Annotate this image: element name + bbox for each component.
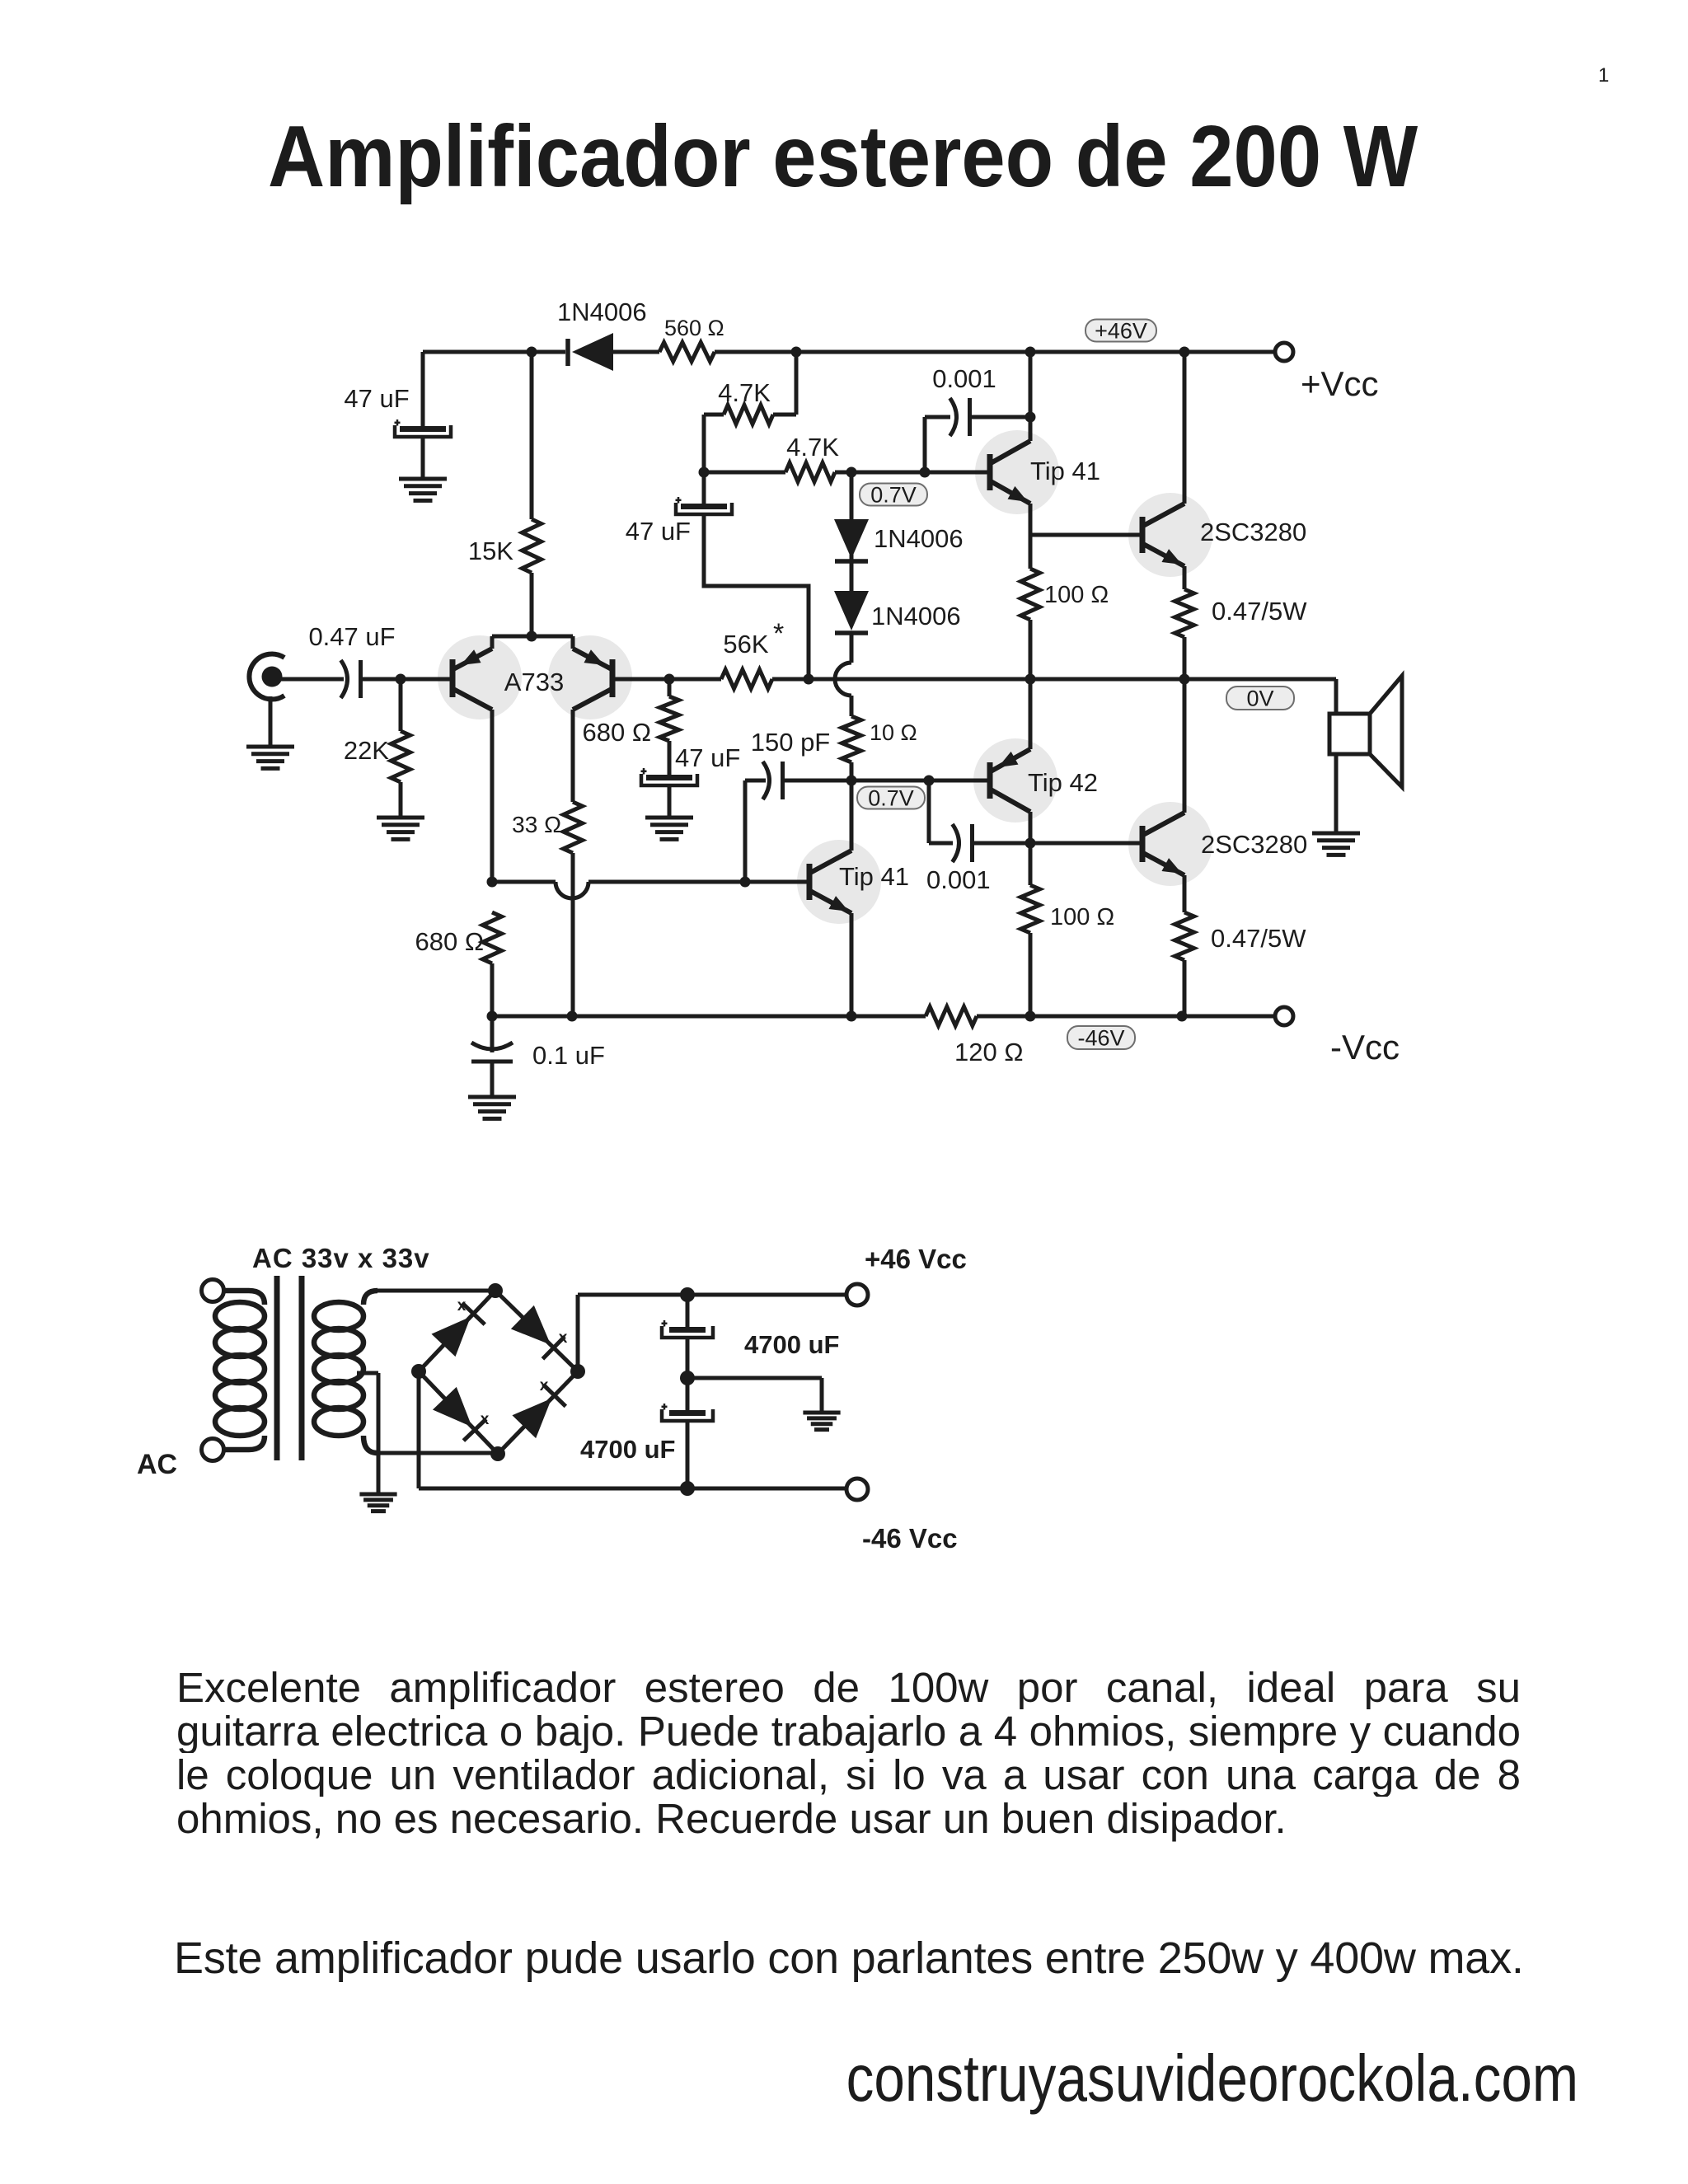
node bottom rail / 0.47 lower xyxy=(1177,1011,1188,1022)
net label 0.7V upper xyxy=(860,482,927,507)
wire 2SC3280L collector up xyxy=(1183,679,1187,813)
bridge node right xyxy=(570,1364,585,1379)
wire 0.001L left down xyxy=(927,780,931,843)
svg-text:4.7K: 4.7K xyxy=(718,378,771,407)
svg-text:680 Ω: 680 Ω xyxy=(582,718,651,747)
svg-text:4700 uF: 4700 uF xyxy=(580,1435,675,1464)
svg-text:2SC3280: 2SC3280 xyxy=(1201,830,1307,859)
svg-text:x: x xyxy=(457,1297,467,1315)
label A733 xyxy=(504,668,564,696)
node top rail / 15K xyxy=(527,347,537,358)
wire base row lower right xyxy=(588,880,809,884)
svg-text:0.001: 0.001 xyxy=(926,865,991,894)
label 4700 uF lower xyxy=(580,1435,675,1464)
website xyxy=(248,2041,1578,2116)
node bottom rail / 33 ohm xyxy=(567,1011,578,1022)
label 1N4006 of D3 xyxy=(871,602,961,630)
wire top rail down to R 4.7K first xyxy=(795,352,799,415)
node 0.7V / 0.001 branch xyxy=(924,776,935,786)
resistor 22K xyxy=(392,731,410,782)
bridge diode left-bottom xyxy=(433,1387,486,1441)
svg-text:47 uF: 47 uF xyxy=(675,743,740,772)
node base row / 150pF xyxy=(740,877,751,888)
wire bottom rail left xyxy=(492,1015,926,1019)
wire 0.47L to rail xyxy=(1183,960,1187,1016)
resistor 100 ohm lower xyxy=(1021,885,1040,933)
transistor body highlight A733 left xyxy=(438,635,522,719)
wire 0.001L left lead xyxy=(929,841,953,846)
wire hop to 10 ohm xyxy=(850,696,854,716)
wire mid node to ground xyxy=(687,1378,822,1413)
label 4700 uF upper xyxy=(744,1330,839,1359)
node diode chain top xyxy=(846,467,857,478)
label 120 ohm xyxy=(954,1038,1024,1066)
wire C7 lead xyxy=(686,1378,690,1410)
label 2SC3280 upper xyxy=(1200,518,1306,546)
2SC3280 upper base lead xyxy=(1030,533,1142,537)
2SC3280 lower collector diag xyxy=(1143,813,1184,835)
svg-text:x: x xyxy=(481,1411,490,1428)
capacitor C3 47uF xyxy=(676,497,733,514)
ground below jack xyxy=(246,747,294,768)
svg-text:0V: 0V xyxy=(1246,686,1273,710)
svg-text:150 pF: 150 pF xyxy=(751,728,831,757)
A733 right emitter diag xyxy=(573,649,612,669)
svg-text:1N4006: 1N4006 xyxy=(557,298,647,326)
bridge edge left-top xyxy=(419,1291,495,1371)
node bottom rail / 0.1uF xyxy=(487,1011,498,1022)
svg-text:+Vcc: +Vcc xyxy=(1301,364,1379,403)
svg-text:22K: 22K xyxy=(344,736,389,765)
title xyxy=(268,107,1418,207)
speaker box xyxy=(1329,714,1370,754)
resistor 0.47/5W upper xyxy=(1175,589,1194,637)
label 47 uF of C4 xyxy=(675,743,740,772)
A733 left collector diag xyxy=(453,689,492,710)
capacitor C1 47uF xyxy=(395,419,452,437)
terminal AC primary bottom xyxy=(202,1439,224,1461)
label +46 Vcc xyxy=(865,1244,967,1274)
wire secondary bottom lead xyxy=(375,1451,498,1455)
wire base row lower left xyxy=(492,880,556,884)
label 100 ohm lower xyxy=(1050,904,1114,930)
label 10 ohm xyxy=(870,720,917,745)
wire D2 to D3 xyxy=(850,539,854,591)
terminal AC primary top xyxy=(202,1280,224,1302)
wire 0.001 left down xyxy=(923,417,927,472)
bridge node left xyxy=(411,1364,426,1379)
wire 15K to A733 emitters xyxy=(530,573,534,636)
svg-text:+46V: +46V xyxy=(1095,318,1147,343)
resistor 0.47/5W lower xyxy=(1175,912,1194,960)
wire D3 down to hop xyxy=(850,633,854,663)
wire speaker to ground xyxy=(1334,754,1339,833)
capacitor C2 0.47uF xyxy=(341,660,361,698)
transistor body highlight 2SC3280 upper xyxy=(1128,493,1212,577)
wire +Vcc rail right segment xyxy=(715,350,1277,354)
svg-text:0.47 uF: 0.47 uF xyxy=(308,622,395,651)
transistor Q Tip41 upper base bar xyxy=(987,454,993,490)
svg-text:0.001: 0.001 xyxy=(932,364,996,393)
node between 4700uF caps xyxy=(680,1371,695,1385)
2SC3280 upper collector xyxy=(1143,504,1184,526)
transistor body highlight Tip42 xyxy=(973,738,1057,823)
svg-text:4.7K: 4.7K xyxy=(786,433,839,462)
page number xyxy=(1598,64,1609,87)
label AC 33v x 33v xyxy=(252,1243,430,1273)
wire bridge right to +46 rail xyxy=(578,1295,848,1371)
ground center tap xyxy=(359,1494,396,1511)
transistor body highlight Tip41 lower xyxy=(797,840,881,924)
ground below C4 xyxy=(645,818,693,839)
label Tip 41 lower xyxy=(839,862,909,891)
resistor 33 ohm xyxy=(564,802,583,853)
svg-text:A733: A733 xyxy=(504,668,564,696)
label 22K xyxy=(344,736,389,765)
paragraph 2 xyxy=(174,1937,1575,1980)
svg-text:2SC3280: 2SC3280 xyxy=(1200,518,1306,546)
wire Tip41u collector up xyxy=(1029,352,1033,441)
svg-text:0.7V: 0.7V xyxy=(868,785,914,810)
wire 56K to speaker rail xyxy=(772,677,1336,682)
wire Tip41L collector up xyxy=(850,780,854,851)
transistor body highlight 2SC3280 lower xyxy=(1128,802,1212,886)
Tip41 upper emitter xyxy=(991,481,1030,504)
wire output rail A733 to 56K xyxy=(612,677,721,682)
net label +46V xyxy=(1085,318,1156,343)
resistor 100 ohm upper xyxy=(1021,569,1040,620)
node 680 ohm branch xyxy=(664,674,675,685)
resistor 120 ohm xyxy=(926,1007,977,1026)
wire D1 to R560 xyxy=(613,350,659,354)
label 47 uF of C1 xyxy=(344,384,409,413)
node output 2SC3280 emitter xyxy=(1179,674,1190,685)
wire Tip42 emitter up xyxy=(1029,679,1033,749)
diode D1 1N4006 xyxy=(568,333,613,371)
transistor A733 right base bar xyxy=(610,659,616,697)
wire 4.7K lower left lead xyxy=(704,471,785,475)
svg-text:10 Ω: 10 Ω xyxy=(870,720,917,745)
wire Tip41u emitter down xyxy=(1029,504,1033,535)
node +46 rail / C6 xyxy=(680,1287,695,1302)
node A733 emitters xyxy=(527,631,537,642)
svg-text:33 Ω: 33 Ω xyxy=(512,812,561,837)
bridge node top xyxy=(488,1283,503,1298)
wire 680L to bottom rail xyxy=(490,963,495,1016)
wire node to 680 ohm xyxy=(668,679,672,696)
terminal -46 Vcc xyxy=(846,1479,868,1500)
svg-text:x: x xyxy=(559,1329,568,1347)
label 33 ohm xyxy=(512,812,561,837)
capacitor 0.001 upper xyxy=(950,398,970,436)
wire 680 to C4 xyxy=(668,741,672,775)
svg-text:Tip 41: Tip 41 xyxy=(1030,457,1100,485)
label 4.7K lower xyxy=(786,433,839,462)
hop of bias line over output rail xyxy=(835,663,851,696)
svg-text:AC: AC xyxy=(137,1449,177,1480)
label Tip 41 upper xyxy=(1030,457,1100,485)
node 0.001 to collector line xyxy=(1025,412,1036,423)
wire 10 ohm to 0.7V node xyxy=(850,762,854,780)
wire C1 to ground xyxy=(421,437,425,479)
label 1N4006 of D1 xyxy=(557,298,647,326)
wire C4 to ground xyxy=(668,785,672,818)
transistor body highlight Tip41 upper xyxy=(975,430,1059,514)
terminal +46 Vcc xyxy=(846,1284,868,1305)
node Tip42 collector xyxy=(1025,838,1036,849)
node 22K branch xyxy=(396,674,406,685)
svg-text:56K: 56K xyxy=(723,630,768,658)
wire jack to C2 xyxy=(280,677,344,682)
transistor 2SC3280 lower base bar xyxy=(1140,826,1146,862)
svg-text:+46 Vcc: +46 Vcc xyxy=(865,1244,967,1274)
ground below speaker xyxy=(1312,833,1360,855)
wire rail to speaker xyxy=(1334,679,1339,714)
svg-text:100 Ω: 100 Ω xyxy=(1044,582,1109,608)
label 0.001 upper xyxy=(932,364,996,393)
wire down to 0.7V row xyxy=(702,415,706,472)
wire 0.001L right lead xyxy=(973,841,1030,846)
svg-text:Tip 41: Tip 41 xyxy=(839,862,909,891)
svg-text:47 uF: 47 uF xyxy=(626,517,691,546)
net label 0.7V lower xyxy=(857,785,925,810)
net label 0V xyxy=(1226,686,1294,710)
ground below C1 xyxy=(399,479,447,500)
wire 0.001 left lead xyxy=(925,415,950,419)
wire top rail to C1 xyxy=(421,352,425,426)
capacitor 0.1 uF xyxy=(471,1043,513,1062)
resistor 560 ohm xyxy=(659,343,715,362)
bridge x mark 1 xyxy=(457,1297,467,1315)
wire 2SC3280L emitter down xyxy=(1183,875,1187,912)
Tip41 lower collector diag xyxy=(810,851,851,873)
label 0.47/5W lower xyxy=(1211,924,1306,953)
svg-text:*: * xyxy=(773,618,784,649)
wire C6 to mid node xyxy=(686,1338,690,1378)
node top rail / Tip41 collector xyxy=(1025,347,1036,358)
2SC3280 lower base lead xyxy=(1030,841,1142,846)
svg-text:0.7V: 0.7V xyxy=(870,482,917,507)
label 100 ohm upper xyxy=(1044,582,1109,608)
Tip41 lower emitter diag xyxy=(810,891,851,913)
transformer core xyxy=(277,1276,302,1460)
label 2SC3280 lower xyxy=(1201,830,1307,859)
wire 22K to ground xyxy=(399,782,403,818)
wire Tip42 collector down xyxy=(1029,812,1033,843)
svg-text:4700 uF: 4700 uF xyxy=(744,1330,839,1359)
wire 0.1uF to ground xyxy=(490,1062,495,1097)
wire 2SC3280u collector up xyxy=(1183,352,1187,504)
transformer secondary winding xyxy=(314,1291,377,1453)
bridge x mark 4 xyxy=(540,1377,549,1394)
wire bridge left to -46 rail xyxy=(419,1371,848,1488)
label AC xyxy=(137,1449,177,1480)
label Tip 42 xyxy=(1028,768,1098,797)
bridge x mark 3 xyxy=(481,1411,490,1428)
wire 33 ohm to bottom rail xyxy=(571,853,575,1016)
ground below 22K xyxy=(377,818,424,839)
wire 0.001 right lead xyxy=(970,415,1030,419)
node top rail / 4.7K xyxy=(791,347,802,358)
wire Tip41L emitter down xyxy=(850,913,854,1016)
node output Tip42 emitter xyxy=(1025,674,1036,685)
node 0.7V / 10ohm xyxy=(846,776,857,786)
A733 left emitter vert xyxy=(490,636,495,649)
capacitor 150 pF xyxy=(763,762,783,799)
wire emitters common xyxy=(492,635,573,639)
resistor 56K xyxy=(721,670,772,689)
svg-text:15K: 15K xyxy=(468,537,513,565)
bridge x mark 2 xyxy=(559,1329,568,1347)
label 680 ohm left xyxy=(415,927,484,956)
wire C7 to -46 rail xyxy=(686,1421,690,1488)
A733 right base lead xyxy=(612,677,669,682)
ground between caps xyxy=(803,1413,840,1430)
label 560 ohm xyxy=(664,316,724,340)
wire 0.7V node to Tip42 base xyxy=(851,779,990,783)
wire to 22K xyxy=(399,679,403,731)
capacitor C7 4700uF xyxy=(662,1404,714,1421)
wire secondary center tap xyxy=(357,1373,378,1493)
wire node to D2 xyxy=(850,472,854,519)
bridge diode bottom-right xyxy=(512,1385,565,1438)
wire A733 right collector down xyxy=(571,710,575,802)
svg-text:0.1 uF: 0.1 uF xyxy=(532,1041,605,1070)
bridge edge left-bottom xyxy=(419,1371,498,1454)
capacitor C4 47uF xyxy=(641,768,698,785)
node base row / 680 ohm xyxy=(487,877,498,888)
wire 100L leads xyxy=(1029,843,1033,1016)
bridge edge top-right xyxy=(495,1291,578,1371)
wire C6 lead xyxy=(686,1295,690,1327)
wire bottom rail right xyxy=(977,1015,1277,1019)
svg-text:x: x xyxy=(540,1377,549,1394)
svg-text:1N4006: 1N4006 xyxy=(874,524,964,553)
A733 right emitter vert xyxy=(571,636,575,649)
svg-text:47 uF: 47 uF xyxy=(344,384,409,413)
node -46 rail / C7 xyxy=(680,1481,695,1496)
label 15K xyxy=(468,537,513,565)
node 4.7K junction xyxy=(699,467,710,478)
wire 150pF left lead xyxy=(745,779,766,783)
2SC3280 upper emitter xyxy=(1143,544,1184,566)
transistor Tip42 base bar xyxy=(987,762,993,799)
label 56K xyxy=(723,618,784,658)
svg-text:-46 Vcc: -46 Vcc xyxy=(862,1523,958,1554)
wire 150pF left vert xyxy=(743,780,748,882)
wire 2SC3280u emitter down xyxy=(1183,566,1187,589)
bridge node bottom xyxy=(490,1446,505,1461)
bridge edge bottom-right xyxy=(498,1371,578,1454)
capacitor 0.001 lower xyxy=(953,824,973,862)
transistor Tip41 lower base bar xyxy=(807,864,813,900)
wire 100ohm upper leads xyxy=(1029,535,1033,679)
2SC3280 lower emitter diag xyxy=(1143,853,1184,875)
svg-text:-46V: -46V xyxy=(1077,1025,1124,1050)
wire 0.1uF lead xyxy=(490,1016,495,1052)
wire +Vcc rail left segment xyxy=(423,350,565,354)
wire R4.7K-1 right lead xyxy=(773,413,796,417)
resistor 4.7K upper xyxy=(724,405,773,424)
node top rail / 2SC3280 collector xyxy=(1179,347,1190,358)
svg-text:0.47/5W: 0.47/5W xyxy=(1211,924,1306,953)
hop of Tip41L base wire xyxy=(556,882,588,898)
svg-text:680 Ω: 680 Ω xyxy=(415,927,484,956)
wire R4.7K-1 left lead xyxy=(704,413,724,417)
resistor 4.7K lower xyxy=(785,463,835,482)
node bottom rail / 100 ohm lower xyxy=(1025,1011,1036,1022)
wire 150pF to 0.7V node xyxy=(783,779,851,783)
resistor 10 ohm xyxy=(842,716,861,762)
label 47 uF of C3 xyxy=(626,517,691,546)
A733 left emitter diag xyxy=(453,649,492,669)
svg-text:120 Ω: 120 Ω xyxy=(954,1038,1024,1066)
wire C2 to A733 base xyxy=(360,677,452,682)
label 0.47/5W upper xyxy=(1212,597,1307,626)
wire A733 left collector down xyxy=(490,710,495,882)
net label -46V xyxy=(1067,1025,1135,1050)
terminal +Vcc xyxy=(1275,343,1293,361)
Tip42 emitter diag xyxy=(991,749,1030,771)
transistor A733 left base bar xyxy=(450,659,456,697)
bridge diode top-right xyxy=(511,1305,565,1359)
svg-text:-Vcc: -Vcc xyxy=(1330,1028,1400,1066)
svg-text:560 Ω: 560 Ω xyxy=(664,316,724,340)
label 150 pF xyxy=(751,728,831,757)
label -Vcc xyxy=(1330,1028,1400,1066)
node output/47uF loop xyxy=(804,674,814,685)
wire C3 bottom loop xyxy=(704,514,809,679)
resistor 15K xyxy=(523,519,542,573)
svg-text:Tip 42: Tip 42 xyxy=(1028,768,1098,797)
diode D2 1N4006 xyxy=(834,519,869,561)
diode D3 1N4006 xyxy=(834,591,869,633)
Tip41 upper collector xyxy=(991,441,1030,463)
ground below 0.1uF xyxy=(468,1097,516,1118)
transistor 2SC3280 upper base bar xyxy=(1140,517,1146,553)
label 1N4006 of D2 xyxy=(874,524,964,553)
wire secondary top lead xyxy=(375,1289,495,1293)
label +Vcc xyxy=(1301,364,1379,403)
label 0.47 uF xyxy=(308,622,395,651)
transistor body highlight A733 right xyxy=(548,635,632,719)
svg-text:1N4006: 1N4006 xyxy=(871,602,961,630)
capacitor C6 4700uF xyxy=(662,1320,714,1338)
wire node to C3 xyxy=(702,472,706,504)
wire top rail to 15K xyxy=(530,352,534,519)
svg-text:100 Ω: 100 Ω xyxy=(1050,904,1114,930)
svg-text:AC 33v x 33v: AC 33v x 33v xyxy=(252,1243,430,1273)
paragraph 1 xyxy=(176,1666,1521,1840)
resistor 680 ohm left xyxy=(483,912,502,963)
transformer primary winding xyxy=(215,1291,265,1450)
node bottom rail / Tip41L emitter xyxy=(846,1011,857,1022)
speaker horn xyxy=(1370,676,1402,787)
wire jack to ground xyxy=(269,696,273,747)
label 0.001 lower xyxy=(926,865,991,894)
input jack xyxy=(249,654,284,700)
resistor 680 ohm right xyxy=(660,696,679,741)
terminal -Vcc xyxy=(1275,1007,1293,1025)
bridge diode left-top xyxy=(431,1303,485,1357)
svg-text:0.47/5W: 0.47/5W xyxy=(1212,597,1307,626)
label -46 Vcc xyxy=(862,1523,958,1554)
label 0.1 uF xyxy=(532,1041,605,1070)
label 680 ohm right xyxy=(582,718,651,747)
wire 0.47 upper to rail xyxy=(1183,637,1187,679)
Tip42 collector diag xyxy=(991,790,1030,812)
label 4.7K upper xyxy=(718,378,771,407)
